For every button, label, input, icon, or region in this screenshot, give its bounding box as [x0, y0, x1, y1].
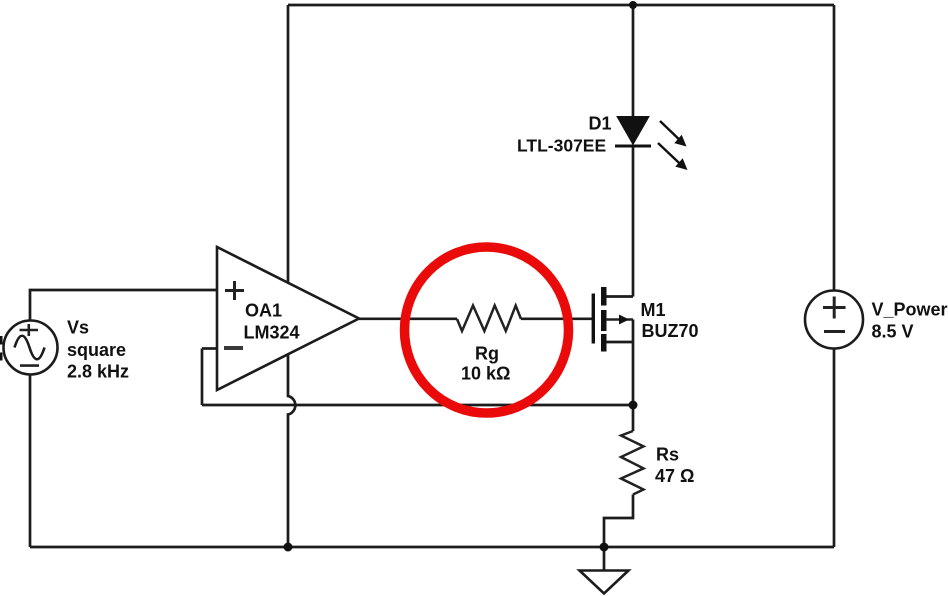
wire op-amp inverting input stub — [202, 347, 217, 350]
transistor M1 body arrow — [606, 318, 633, 321]
resistor Rs 47 Ohm zigzag — [621, 431, 644, 495]
wire op-amp output to Rg — [359, 317, 457, 320]
svg-text:D1: D1 — [589, 114, 612, 134]
source Vs circle — [4, 321, 58, 375]
wire feedback down-left — [201, 349, 204, 406]
Vs clipped terminal marks at image edge — [0, 336, 3, 345]
svg-text:M1: M1 — [641, 300, 666, 320]
transistor M1 channel bar middle — [601, 310, 607, 331]
svg-text:Rs: Rs — [656, 445, 679, 465]
wire drain elbow — [606, 295, 633, 298]
V_Power minus symbol — [824, 330, 845, 333]
svg-text:Rg: Rg — [475, 344, 499, 364]
svg-text:LTL-307EE: LTL-307EE — [517, 136, 606, 156]
svg-text:8.5 V: 8.5 V — [872, 322, 914, 342]
wire bottom rail — [30, 546, 834, 549]
wire LED cathode to drain — [632, 146, 635, 297]
wire LED top (rail to LED anode) — [632, 5, 635, 116]
wire Rg to gate — [521, 317, 592, 320]
resistor Rg 10 kOhm zigzag — [457, 306, 521, 332]
V_Power plus symbol — [823, 297, 846, 319]
op-amp minus input symbol — [224, 346, 243, 350]
svg-text:10 kΩ: 10 kΩ — [461, 364, 510, 384]
svg-text:LM324: LM324 — [244, 323, 300, 343]
wire body elbow down to node — [632, 320, 635, 406]
wire vertical net x=288 lower with hop — [288, 353, 295, 547]
wire left rail lower — [29, 375, 32, 548]
wire Rs bottom jog to ground node — [604, 495, 633, 548]
wire node to Rs — [632, 405, 635, 431]
wire vertical net x=288 upper — [287, 5, 290, 284]
ground symbol — [580, 571, 629, 594]
wire feedback horizontal — [202, 404, 633, 407]
LED D1 cathode bar — [615, 145, 651, 148]
junction dot bottom rail x=288 — [284, 543, 293, 552]
Vs plus symbol — [20, 324, 39, 336]
svg-text:OA1: OA1 — [245, 301, 282, 321]
transistor M1 channel bar bottom — [601, 334, 607, 352]
transistor M1 channel bar top — [601, 287, 607, 306]
LED D1 triangle — [617, 117, 649, 145]
transistor M1 gate bar — [592, 294, 595, 344]
wire ground stub — [603, 547, 606, 570]
wire left rail upper (Vs to + input net) — [30, 290, 217, 321]
voltage source V_Power circle — [805, 291, 863, 349]
wire right rail upper — [833, 5, 836, 291]
op-amp OA1 triangle — [217, 247, 359, 390]
junction node A (feedback / source / Rs) — [629, 401, 638, 410]
Vs minus symbol — [20, 364, 39, 367]
op-amp plus input symbol — [225, 281, 244, 300]
Vs sine wave — [15, 336, 45, 360]
svg-text:V_Power: V_Power — [872, 300, 948, 320]
LED arrow 2 — [658, 143, 688, 170]
wire source elbow — [606, 341, 633, 344]
svg-text:BUZ70: BUZ70 — [642, 321, 699, 341]
svg-text:Vs: Vs — [67, 318, 89, 338]
junction dot top rail / LED branch — [629, 1, 637, 9]
junction dot ground node — [600, 543, 609, 552]
svg-text:square: square — [67, 340, 126, 360]
LED arrow 1 — [660, 121, 687, 147]
wire top rail — [288, 4, 834, 7]
red highlight circle — [405, 247, 569, 413]
svg-text:2.8 kHz: 2.8 kHz — [67, 362, 129, 382]
wire right rail lower — [833, 348, 836, 547]
svg-text:47 Ω: 47 Ω — [655, 466, 694, 486]
